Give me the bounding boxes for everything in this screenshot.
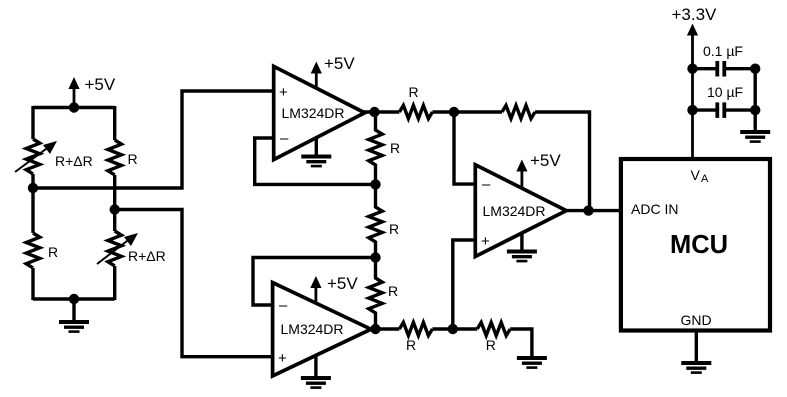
svg-text:R: R — [486, 337, 496, 353]
svg-text:R: R — [406, 337, 416, 353]
resistor R bottom-left — [26, 233, 40, 268]
op-amp U2 LM324DR — [273, 283, 371, 376]
wire bridge bottom rail — [33, 297, 115, 300]
svg-text:LM324DR: LM324DR — [282, 105, 345, 121]
svg-text:ADC IN: ADC IN — [631, 201, 678, 217]
resistor ladder R1 (between U1 out and U1 fb) — [369, 112, 383, 184]
ground U3 — [507, 233, 537, 262]
svg-text:LM324DR: LM324DR — [281, 321, 344, 337]
wire to U3 plus node — [432, 327, 477, 330]
svg-text:+3.3V: +3.3V — [672, 5, 718, 24]
node cap row1 left — [687, 63, 697, 73]
svg-text:R+ΔR: R+ΔR — [128, 248, 166, 264]
svg-text:–: – — [279, 297, 288, 314]
wire U3 output to MCU — [564, 209, 620, 212]
op-amp U1 LM324DR — [274, 66, 365, 159]
node U1 output — [369, 107, 379, 117]
wire U2 output row — [376, 327, 400, 330]
resistor R+dR top-left — [26, 139, 40, 174]
wire bridge left lower — [31, 268, 34, 300]
wire U3 feedback right side — [535, 112, 590, 211]
wire bridge top rail — [33, 106, 115, 109]
resistor R (U3 plus to ground) — [477, 322, 510, 335]
capacitor C1 0.1uF — [693, 61, 756, 77]
+5V supply U2 — [310, 274, 358, 304]
node cap row2 left — [687, 105, 697, 115]
svg-text:GND: GND — [681, 312, 712, 328]
wire bridge left-mid to op-amp U1 plus input — [33, 91, 274, 188]
+5V supply U3 — [516, 151, 561, 189]
ground bridge — [59, 299, 89, 332]
svg-text:R: R — [128, 151, 138, 167]
resistor ladder R3 (between fb2 and U2 out) — [369, 258, 383, 330]
resistor ladder R2 (between fb1 and fb2) — [369, 184, 383, 257]
node cap row1 right — [750, 63, 760, 73]
wire U3 minus input — [454, 112, 475, 184]
node bridge bottom — [69, 294, 79, 304]
wire to summing node — [432, 110, 502, 113]
node ladder fb2 — [370, 252, 380, 262]
resistor R top-right — [108, 140, 122, 175]
ground (U3 plus network) — [517, 358, 547, 368]
wire U2 feedback (minus input to ladder fb2) — [253, 258, 376, 306]
svg-text:+: + — [279, 84, 288, 101]
svg-text:LM324DR: LM324DR — [483, 203, 546, 219]
resistor R+dR bottom-right — [108, 231, 122, 266]
wire U1 output — [362, 110, 399, 113]
ground MCU — [681, 331, 711, 373]
node cap row2 right — [750, 105, 760, 115]
op-amp U3 LM324DR — [475, 165, 566, 257]
node bridge right mid — [110, 204, 120, 214]
svg-text:+5V: +5V — [327, 274, 358, 293]
+5V supply (bridge) — [68, 75, 115, 108]
variable arrow top-left — [15, 141, 57, 172]
svg-text:R: R — [409, 84, 419, 100]
wire bridge left mid — [31, 174, 34, 233]
node U3 plus junction — [448, 324, 458, 334]
MCU block — [621, 159, 770, 331]
node summing junction U3 minus — [449, 107, 459, 117]
variable arrow bottom-right — [97, 233, 138, 264]
resistor R (U2 output series) — [399, 322, 432, 335]
svg-text:+: + — [481, 233, 490, 250]
svg-text:R: R — [390, 140, 400, 156]
svg-text:10 µF: 10 µF — [707, 84, 743, 100]
wire bridge right upper — [113, 106, 116, 140]
ground U2 — [301, 355, 331, 388]
svg-text:MCU: MCU — [670, 231, 728, 259]
svg-text:+5V: +5V — [85, 75, 116, 94]
svg-text:R: R — [388, 283, 398, 299]
wire U1 feedback (minus input to output divider) — [255, 138, 376, 184]
svg-text:–: – — [280, 130, 289, 147]
wire node up to U3 plus input — [453, 240, 476, 329]
ground caps — [740, 132, 770, 142]
svg-text:–: – — [482, 176, 491, 193]
+5V supply U1 — [311, 54, 356, 89]
wire bridge right mid — [113, 175, 116, 231]
svg-text:+: + — [278, 350, 287, 367]
svg-text:0.1 µF: 0.1 µF — [703, 43, 743, 59]
wire bridge right-mid to op-amp U2 plus input — [115, 210, 273, 357]
wire bridge right lower — [113, 266, 116, 300]
svg-text:+5V: +5V — [324, 54, 355, 73]
svg-text:+5V: +5V — [530, 151, 561, 170]
svg-text:R+ΔR: R+ΔR — [55, 153, 93, 169]
svg-text:R: R — [389, 221, 399, 237]
wire R to ground — [510, 329, 532, 356]
node ladder fb1 — [370, 179, 380, 189]
node ladder bottom / U2 output — [370, 324, 380, 334]
capacitor C2 10uF — [693, 102, 756, 118]
resistor R (U3 feedback) — [502, 105, 535, 118]
+3.3V supply — [672, 5, 718, 159]
wire caps right rail — [754, 69, 757, 130]
ground U1 — [301, 138, 331, 167]
resistor R (U1 output series) — [399, 105, 432, 118]
node U3 output — [583, 205, 593, 215]
wire U2 output to ladder — [369, 327, 376, 330]
svg-text:R: R — [48, 244, 58, 260]
wire bridge left upper — [31, 106, 34, 139]
node bridge top — [69, 102, 79, 112]
node bridge left mid — [28, 183, 38, 193]
